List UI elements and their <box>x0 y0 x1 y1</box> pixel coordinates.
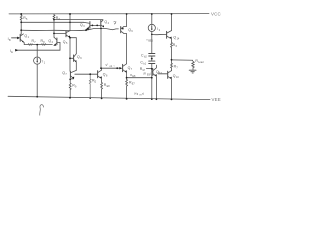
transistor Q3 (x89.9, mirrored) <box>89 22 91 29</box>
wire: VCC drop at x70 <box>69 14 71 31</box>
Q13 emitter arrow <box>155 74 157 76</box>
junction dots <box>20 13 172 100</box>
resistor R_load <box>192 62 194 70</box>
wire: between caps <box>151 56 153 61</box>
junction dot (126.6,98.85) <box>126 98 128 100</box>
junction dot (126.6,14) <box>126 13 128 15</box>
squiggle mark below rail <box>40 105 44 116</box>
Q4 emitter arrow <box>103 25 105 27</box>
svg-text:v): v) <box>142 93 144 96</box>
junction dot (92.4,25.4) <box>92 25 94 27</box>
Q5 emitter arrow <box>68 36 70 38</box>
junction dot (86,30.2) <box>85 29 87 31</box>
junction dot (151.8,77.7) <box>151 77 153 79</box>
ground symbol <box>189 70 196 73</box>
Q14 emitter arrow <box>170 37 172 39</box>
junction dot (101,28.4) <box>100 28 102 30</box>
wire: first-stage output drop x101 <box>100 28 102 68</box>
svg-text:M: M <box>143 69 145 72</box>
svg-text:7: 7 <box>34 41 36 44</box>
Q8 emitter arrow <box>100 76 102 78</box>
svg-text:VEE: VEE <box>212 97 221 102</box>
current source I2 (circle at x151.8) <box>151 14 153 24</box>
svg-text:2: 2 <box>95 81 97 84</box>
junction dot (70,14) <box>69 13 71 15</box>
wire: VEE bottom rail <box>8 96 210 99</box>
junction dot (21.2,14) <box>20 13 22 15</box>
arrowheads <box>15 23 172 79</box>
labels <box>8 12 221 102</box>
junction dot (171.5,99.4) <box>171 99 173 101</box>
wire: Q3/Q4 base tie y25.4 <box>90 24 100 26</box>
transistor Q8 (x97.6) <box>97 71 99 78</box>
svg-text:(¼g: (¼g <box>134 93 139 96</box>
svg-text:2: 2 <box>159 29 161 32</box>
svg-text:E8: E8 <box>107 85 111 88</box>
Q1 emitter arrow <box>22 41 24 43</box>
I_B arrowhead <box>17 37 20 40</box>
junction dot (21.2,22.3) <box>20 21 22 23</box>
Q10 emitter arrow <box>170 77 172 79</box>
svg-text:7: 7 <box>176 67 178 70</box>
transistor Q14 (x166.6) <box>166 31 168 38</box>
junction dot (70,58.3) <box>69 57 71 59</box>
junction dot (54,33.4) <box>53 33 55 35</box>
Q2 emitter arrow <box>53 44 56 46</box>
wire: Q8 collector up to node <box>100 68 102 70</box>
transistor Q10 (x167.7) <box>158 73 168 75</box>
transistor Q1 (x20.2 input) <box>19 34 21 41</box>
resistor R_E7 (x126.6 to VEE) <box>126 80 128 99</box>
wire: node below R5 down to Q1 collector <box>20 22 22 34</box>
junction dot (151.8,99.2) <box>151 98 153 100</box>
junction dot (151.8,58.6) <box>151 58 153 60</box>
wire: Q5 emitter node down x70 <box>69 38 71 71</box>
junction dot (101,68.2) <box>100 67 102 69</box>
wire: horizontal net y68.2 to Q7 right base <box>101 67 120 69</box>
junction dot (37.2,96.75) <box>36 96 38 98</box>
svg-text:): ) <box>150 73 151 76</box>
svg-text:o1: o1 <box>110 65 113 68</box>
wire: branch right of Q5 emitter node down to Q9 collector <box>70 38 76 54</box>
wire: Q14 emitter down + resistor R6b <box>171 39 173 60</box>
wire: Q6 emitter up to VCC <box>126 14 128 26</box>
wire: output node y59.8 to R_load <box>172 59 193 62</box>
junction dot (70,97.8) <box>69 97 71 99</box>
junction dot (90.2,98.2) <box>89 97 91 99</box>
junction dot (171.5,59.8) <box>171 59 173 61</box>
svg-text:3: 3 <box>83 25 85 28</box>
Q9 emitter arrow <box>75 60 77 62</box>
wire: Q10 emitter to VEE <box>171 79 173 99</box>
wire: horizontal net y22.3 from R5 node to Q3 collector <box>21 21 84 23</box>
wire: Q9 emitter down to Q7 <box>75 62 77 70</box>
wire: VCC top rail <box>9 13 209 15</box>
wire: horizontal net y19.6 from R6 node to Q4 <box>54 19 103 22</box>
svg-text:≈: ≈ <box>114 64 116 67</box>
resistor R6 (vertical, from VCC at x54) <box>53 14 55 20</box>
junction dot (151.8,34.3) <box>151 34 153 36</box>
junction dot (70,37.7) <box>69 37 71 39</box>
resistor R5 (vertical, from VCC at x21) <box>20 14 22 22</box>
wire: Q6 collector down to Q7r collector <box>126 34 128 64</box>
wire: I2 to Q14 base (wavy) <box>152 33 166 35</box>
wire: below caps to VEE <box>151 64 153 100</box>
wire: Q14 collector to VCC <box>171 14 173 31</box>
svg-text:E: E <box>11 51 13 54</box>
wire: node below R6 down to Q2 collector <box>53 20 55 38</box>
capacitor C1 (x151.8 lower) <box>149 61 155 63</box>
svg-text:B: B <box>9 39 11 42</box>
transistor Q7 (x70.4 lower-left) <box>69 71 71 77</box>
transistor Q9 (x73.6) <box>70 57 73 59</box>
transistor Q13 (x153.3) <box>151 71 154 73</box>
junction dot (37.2,44.6) <box>36 44 38 46</box>
svg-text:13: 13 <box>159 72 162 75</box>
transistor Q5 (x66) <box>65 31 67 37</box>
Q7 emitter arrow <box>72 77 74 79</box>
resistor R9 (x70 to VEE) <box>69 79 71 98</box>
small arrow mark near Q4 head <box>114 23 116 25</box>
svg-text:2: 2 <box>52 41 54 44</box>
junction dot (54,19.6) <box>53 19 55 21</box>
wire: I_B arrow shaft <box>12 37 18 39</box>
wire: Q7r emitter down <box>126 72 128 79</box>
svg-text:b1: b1 <box>143 63 146 66</box>
wire: Q5 base stub y33.4 <box>54 32 66 34</box>
wire: base net y74.2 from Q7 to Q8 <box>75 73 98 75</box>
wire: long wavy net y30 from Q1 collector to Q6 base <box>21 28 118 30</box>
junction dot (70.2,79.3) <box>69 78 71 80</box>
wire: Q13 emitter to VEE <box>155 77 157 100</box>
wire: I1 tail from y44.5 node <box>36 45 38 57</box>
junction dot (156.4,99.25) <box>156 98 158 100</box>
junction dot (70,22.3) <box>69 22 71 24</box>
junction dot (126.6,77.7) <box>126 77 128 79</box>
resistor R (x90 to VEE) <box>89 74 91 98</box>
transistor Q2 (x56.9, mirrored) <box>56 38 58 45</box>
capacitor C2 (x151.8 upper) <box>149 54 155 57</box>
svg-text:14: 14 <box>177 37 180 40</box>
svg-text:8: 8 <box>106 75 108 78</box>
svg-text:b2: b2 <box>144 56 147 59</box>
svg-text:7: 7 <box>131 68 133 71</box>
svg-text:1: 1 <box>44 61 46 64</box>
arrowhead on y68.2 net <box>119 67 122 69</box>
svg-text:BE6: BE6 <box>148 39 153 42</box>
I_E arrowhead <box>15 49 18 52</box>
svg-text:E7: E7 <box>132 83 136 86</box>
svg-text:VCC: VCC <box>211 12 221 17</box>
junction dot (151.8,14) <box>151 13 153 15</box>
junction dot (151.8,68.8) <box>151 68 153 70</box>
wire: emitter net y44.5 with R7 R8 <box>24 44 52 45</box>
wire: I2 node down to caps <box>151 32 153 54</box>
junction dot (101.6,98.4) <box>101 98 103 100</box>
svg-text:(R: (R <box>143 73 146 76</box>
current source I1 (circle) <box>34 57 41 64</box>
svg-text:10: 10 <box>176 76 179 79</box>
svg-text:6: 6 <box>131 30 133 33</box>
resistor R7b (x171.5 y63-69) <box>171 60 173 71</box>
Q3 emitter arrow (solid) <box>86 27 90 30</box>
wire: I1 to VEE <box>36 64 38 97</box>
transistor Q7r (x122.6) <box>122 64 124 71</box>
svg-text:8: 8 <box>43 41 45 44</box>
wire: net y77.7 between x126.6 and x151.8 <box>127 77 152 79</box>
svg-text:9: 9 <box>80 57 82 60</box>
svg-text:5: 5 <box>26 18 28 21</box>
svg-text:5: 5 <box>66 42 68 45</box>
junction dot (171.5,14) <box>171 13 173 15</box>
wire: Q1 emitter to y44.5 <box>23 43 25 45</box>
junction dot (117.2,68.2) <box>116 67 118 69</box>
wire: R stub into node x151.8 y68.6 <box>146 68 151 70</box>
svg-text:6: 6 <box>176 45 178 48</box>
svg-text:4: 4 <box>108 22 110 25</box>
transistor Q6 (PNP x120.7) <box>120 27 122 33</box>
Q6 PNP arrow (points toward bar) <box>121 28 124 30</box>
small arrow mark near Q4 <box>114 21 116 24</box>
svg-text:9: 9 <box>75 85 77 88</box>
resistor R_E8 (x101.6 to VEE) <box>101 79 103 99</box>
Q7r emitter arrow <box>125 70 127 72</box>
junction dot (90.2,74.2) <box>89 73 91 75</box>
svg-text:v': v' <box>106 63 109 67</box>
wire: I_E line y50.2 and bend up to Q2 base <box>16 43 60 51</box>
junction dot (21.2,30.2) <box>20 29 22 31</box>
svg-text:Load: Load <box>198 61 204 64</box>
transistor Q4 (x100.8) <box>100 20 102 27</box>
svg-text:7: 7 <box>65 73 67 76</box>
junction dot (97.2,25.4) <box>96 25 98 27</box>
svg-text:1: 1 <box>28 36 30 39</box>
